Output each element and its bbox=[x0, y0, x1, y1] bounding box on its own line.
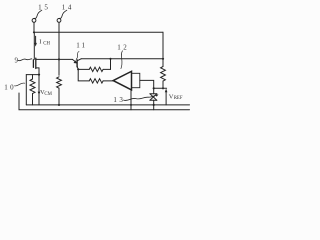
label V_REF bbox=[169, 93, 183, 101]
terminal circle 14 bbox=[57, 19, 61, 33]
svg-text:REF: REF bbox=[174, 96, 183, 101]
label 14 bbox=[62, 4, 72, 12]
resistor middle vertical bbox=[57, 77, 62, 88]
left edge of Vcm box bbox=[25, 75, 27, 105]
wire emitter down to R2 bbox=[78, 69, 89, 81]
junction dot bbox=[162, 87, 164, 89]
junction dot bbox=[130, 104, 132, 106]
label 13 leader bbox=[124, 95, 156, 100]
top rail bbox=[34, 31, 163, 33]
op-amp output box bbox=[132, 73, 140, 87]
wire node 9 drain to BJT 11 bbox=[36, 58, 73, 60]
transistor 9 bbox=[33, 58, 39, 75]
label 10 leader bbox=[15, 83, 25, 86]
junction dot bbox=[58, 58, 60, 60]
svg-text:3: 3 bbox=[119, 96, 123, 104]
svg-text:4: 4 bbox=[68, 4, 72, 12]
resistor R1 horizontal bbox=[78, 67, 110, 71]
junction dot bbox=[33, 31, 35, 33]
label 14 leader bbox=[60, 10, 67, 18]
wire to node bbox=[162, 81, 164, 88]
svg-text:2: 2 bbox=[123, 43, 127, 51]
label 9 leader bbox=[18, 59, 32, 61]
output wire to node bbox=[140, 80, 154, 93]
svg-text:5: 5 bbox=[44, 4, 48, 12]
V_REF arrow bbox=[165, 89, 168, 105]
svg-text:0: 0 bbox=[10, 83, 14, 91]
wire from rail down to transistor 9 bbox=[33, 32, 35, 59]
svg-text:1: 1 bbox=[38, 4, 42, 12]
resistor right vertical bbox=[161, 67, 166, 82]
svg-text:1: 1 bbox=[113, 96, 117, 104]
svg-text:1: 1 bbox=[4, 83, 8, 91]
label 13 bbox=[113, 96, 123, 104]
V_CM arrow bbox=[38, 75, 41, 105]
label V_CM bbox=[40, 89, 53, 97]
label 15 leader bbox=[35, 10, 42, 18]
outer bottom rail bbox=[19, 93, 190, 110]
label 12 bbox=[117, 43, 127, 51]
wire resistor to bottom rail bbox=[58, 88, 60, 105]
collector wire to right branch bbox=[81, 58, 163, 60]
label 15 bbox=[38, 4, 48, 12]
wire from rail down middle branch bbox=[58, 32, 60, 75]
label 11 bbox=[76, 42, 85, 50]
svg-text:9: 9 bbox=[15, 57, 19, 65]
diode 13 bbox=[150, 94, 157, 110]
svg-text:CM: CM bbox=[44, 92, 52, 97]
resistor 10 vertical bbox=[30, 75, 35, 105]
junction dot bbox=[153, 104, 155, 106]
label 11 leader bbox=[76, 52, 79, 60]
op-amp 12 bbox=[113, 71, 131, 90]
label 10 bbox=[4, 83, 14, 91]
svg-text:CH: CH bbox=[43, 41, 50, 46]
wire top of Vcm box bbox=[26, 74, 39, 76]
right branch from rail bbox=[162, 32, 164, 66]
junction dot bbox=[109, 58, 111, 60]
node wire horizontal bbox=[154, 87, 167, 89]
inner bottom rail bbox=[26, 104, 189, 106]
wire op-amp bottom corner to outer rail bbox=[130, 90, 132, 110]
node dot at source of 9 bbox=[38, 74, 40, 76]
junction dot bbox=[162, 58, 164, 60]
junction dot bbox=[58, 104, 60, 106]
terminal circle 15 bbox=[32, 19, 36, 33]
label I_CH bbox=[39, 38, 50, 46]
riser to top wire bbox=[110, 59, 112, 70]
svg-text:1: 1 bbox=[82, 42, 86, 50]
svg-text:1: 1 bbox=[76, 42, 80, 50]
node at emitter bbox=[77, 68, 79, 70]
svg-text:1: 1 bbox=[117, 43, 121, 51]
resistor R2 horizontal bbox=[89, 79, 113, 83]
current arrow I_CH bbox=[34, 36, 37, 46]
transistor 11 bbox=[72, 59, 81, 70]
junction dot bbox=[153, 87, 155, 89]
svg-text:1: 1 bbox=[62, 4, 66, 12]
svg-text:I: I bbox=[39, 38, 41, 45]
label 12 leader bbox=[121, 51, 123, 69]
